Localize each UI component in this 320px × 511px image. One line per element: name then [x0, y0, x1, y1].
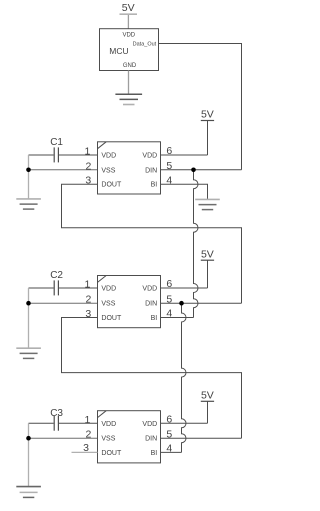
wire C3 right plate to IC3 VDD pin1: [59, 422, 98, 424]
ground (C1): [16, 199, 41, 209]
ground (MCU): [115, 94, 142, 104]
svg-text:BI: BI: [151, 450, 158, 457]
svg-text:GND: GND: [123, 63, 137, 69]
wire C2 left plate to corner: [29, 287, 54, 289]
svg-text:DIN: DIN: [145, 436, 157, 443]
wire DOUT2 to DIN3: [62, 318, 242, 439]
svg-text:VDD: VDD: [122, 32, 135, 38]
wire C3 left plate to corner: [29, 422, 54, 424]
wire C1 right plate to IC1 VDD pin1: [59, 154, 98, 156]
IC U1 (LED driver): [98, 142, 161, 194]
wire C1 left plate to corner: [29, 154, 54, 156]
svg-text:5V: 5V: [122, 2, 135, 14]
IC U2 (LED driver): [98, 276, 161, 328]
wire IC3 BI pin4 to backup chain: [161, 451, 182, 453]
svg-text:Data_Out: Data_Out: [133, 42, 157, 48]
svg-text:1: 1: [85, 414, 91, 426]
wire DIN2 node to BI3 (backup chain) with hops: [182, 303, 187, 452]
svg-text:VDD: VDD: [142, 421, 157, 428]
svg-text:2: 2: [86, 294, 92, 306]
svg-text:VDD: VDD: [142, 153, 157, 160]
svg-text:5V: 5V: [201, 248, 214, 260]
wire IC3 DIN pin5 to data: [161, 437, 242, 439]
svg-text:BI: BI: [151, 182, 158, 189]
svg-text:VDD: VDD: [101, 421, 116, 428]
wire IC2 DIN pin5 to data: [161, 302, 242, 304]
wire 5V drop to pin6: [207, 260, 209, 288]
wire C2 right plate to IC2 VDD pin1: [59, 287, 98, 289]
MCU U1 box: [100, 29, 159, 71]
wire MCU GND to ground: [128, 71, 130, 95]
svg-text:VDD: VDD: [101, 286, 116, 293]
svg-text:VSS: VSS: [101, 436, 115, 443]
svg-text:2: 2: [86, 429, 92, 441]
wire DIN1 node to BI2 (backup chain) with hops: [194, 170, 199, 318]
wire node down to ground: [28, 170, 30, 199]
svg-text:3: 3: [85, 308, 91, 320]
svg-text:DOUT: DOUT: [101, 450, 122, 457]
power 5V (section 1): [201, 109, 214, 121]
wire corner down to node: [28, 155, 30, 170]
svg-text:C3: C3: [50, 408, 63, 419]
svg-text:DIN: DIN: [145, 167, 157, 174]
capacitor C3: [50, 408, 63, 431]
svg-text:VSS: VSS: [101, 167, 115, 174]
node junction C3/VSS: [26, 436, 31, 441]
wire IC1 VDD pin6 to 5V: [161, 154, 208, 156]
wire node down to ground: [28, 438, 30, 486]
svg-text:1: 1: [85, 146, 91, 158]
ground (C3): [16, 487, 41, 498]
ground (C2): [16, 348, 41, 358]
wire IC2 BI pin4 to backup chain: [161, 317, 194, 319]
wire 5V drop to pin6: [207, 401, 209, 423]
capacitor C1: [50, 137, 63, 163]
wire IC1 BI pin4 to ground: [161, 184, 208, 199]
power 5V (MCU supply): [120, 2, 138, 14]
svg-text:1: 1: [85, 279, 91, 291]
wire 5V to MCU VDD: [127, 15, 129, 29]
wire IC2 VDD pin6 to 5V: [161, 287, 208, 289]
svg-text:C2: C2: [50, 270, 63, 281]
wire corner down to node: [28, 423, 30, 438]
svg-text:VDD: VDD: [101, 153, 116, 160]
ground (IC1 BI): [195, 199, 220, 209]
svg-text:5V: 5V: [201, 109, 214, 121]
svg-text:3: 3: [85, 175, 91, 187]
capacitor C2: [50, 270, 63, 296]
svg-text:2: 2: [86, 160, 92, 172]
node DIN2 junction: [179, 301, 184, 306]
power 5V (section 3): [201, 389, 214, 401]
svg-text:DOUT: DOUT: [101, 182, 122, 189]
svg-text:BI: BI: [151, 315, 158, 322]
power 5V (section 2): [201, 248, 214, 260]
svg-text:DOUT: DOUT: [101, 315, 122, 322]
node DIN1 junction: [191, 168, 196, 173]
wire corner down to node: [28, 288, 30, 303]
IC U3 (LED driver): [98, 411, 161, 463]
svg-text:5V: 5V: [201, 389, 214, 401]
node junction C2/VSS: [26, 301, 31, 306]
svg-text:DIN: DIN: [145, 301, 157, 308]
wire node to IC1 VSS pin2: [29, 169, 98, 171]
wire node to IC3 VSS pin2: [29, 437, 98, 439]
svg-text:VSS: VSS: [101, 301, 115, 308]
wire node to IC2 VSS pin2: [29, 302, 98, 304]
svg-text:MCU: MCU: [109, 46, 128, 56]
svg-text:C1: C1: [50, 137, 63, 148]
wire IC3 VDD pin6 to 5V: [161, 422, 208, 424]
node junction C1/VSS: [26, 168, 31, 173]
wire node down to ground: [28, 303, 30, 348]
wire Data_Out MCU to DIN1 node: [159, 44, 242, 170]
wire IC1 DIN pin5 to data: [161, 169, 242, 171]
wire 5V drop to pin6: [207, 121, 209, 156]
svg-text:VDD: VDD: [142, 286, 157, 293]
wire DOUT3 no-connect stub: [72, 451, 98, 453]
wire DOUT1 to DIN2: [62, 184, 242, 303]
